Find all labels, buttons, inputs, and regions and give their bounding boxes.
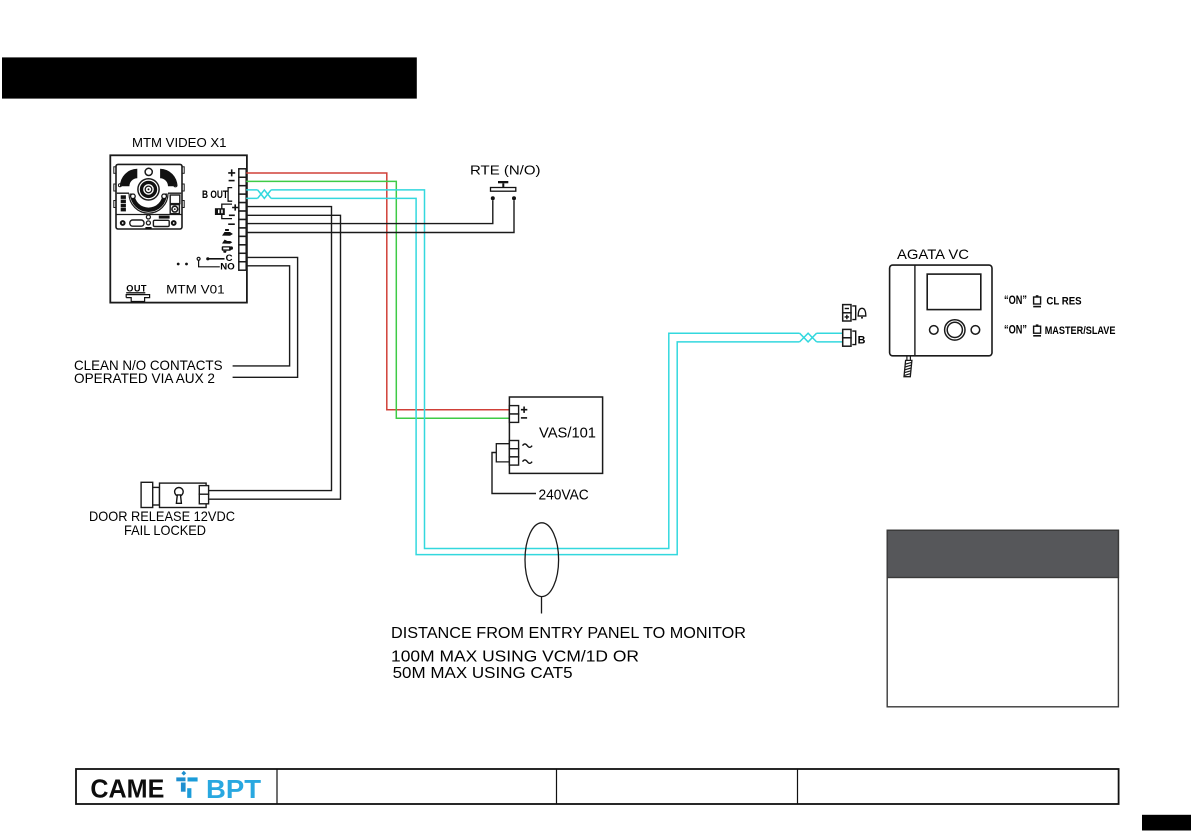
svg-text:B OUT: B OUT	[202, 189, 228, 201]
svg-text:240VAC: 240VAC	[539, 488, 589, 504]
svg-text:OPERATED VIA AUX 2: OPERATED VIA AUX 2	[74, 370, 215, 386]
svg-text:MTM VIDEO X1: MTM VIDEO X1	[132, 135, 227, 150]
bell icon	[858, 308, 867, 318]
callout stem	[541, 597, 543, 614]
distance callout ellipse	[525, 523, 559, 597]
handset divider	[914, 265, 916, 356]
B terminal block	[843, 329, 851, 346]
RTE push button	[491, 181, 517, 200]
OUT underline	[126, 292, 145, 294]
buttons	[930, 320, 980, 340]
svg-text:100M MAX USING VCM/1D OR: 100M MAX USING VCM/1D OR	[391, 649, 639, 666]
footer table	[76, 769, 1119, 804]
right small rect + screw	[170, 195, 180, 204]
wire cyan bus B (B OUT to monitor)	[246, 198, 843, 554]
240VAC feed wire	[492, 453, 536, 494]
side circles	[118, 184, 121, 187]
wire black C contact	[233, 257, 298, 377]
svg-text:VAS/101: VAS/101	[539, 426, 596, 442]
dip switch icon 2	[1033, 324, 1041, 335]
lens	[138, 179, 159, 200]
key icon T9	[222, 240, 232, 244]
minus T7	[228, 223, 235, 225]
top circle	[145, 168, 152, 175]
minus T6	[229, 214, 235, 216]
svg-text:CAME: CAME	[90, 775, 164, 803]
svg-text:BPT: BPT	[206, 776, 261, 804]
svg-text:DOOR RELEASE 12VDC: DOOR RELEASE 12VDC	[89, 509, 235, 524]
left crescent	[120, 169, 137, 187]
VAS AC terminals	[509, 441, 518, 466]
bell terminal plus	[845, 315, 850, 320]
terminal labels	[222, 169, 239, 224]
wire green - supply to VAS	[246, 181, 510, 418]
svg-text:“ON”: “ON”	[1004, 293, 1027, 307]
right crescent	[160, 169, 177, 187]
notes box with gray header	[887, 530, 1118, 707]
AC bracket	[496, 444, 509, 462]
door release lock symbol	[141, 482, 209, 507]
twisted pair mark near MTM	[258, 190, 272, 199]
CAME BPT icon	[176, 771, 197, 798]
svg-text:AGATA VC: AGATA VC	[897, 247, 969, 262]
svg-text:OUT: OUT	[126, 284, 147, 294]
AC tilde bottom	[523, 460, 533, 463]
mid line	[117, 192, 181, 194]
svg-text:FAIL LOCKED: FAIL LOCKED	[124, 523, 206, 538]
video camera icon at T5	[215, 208, 225, 215]
OUT connector shape	[126, 295, 149, 302]
screen	[927, 274, 981, 310]
plus T1	[228, 169, 235, 176]
VAS - label	[521, 417, 527, 419]
svg-text:MASTER/SLAVE: MASTER/SLAVE	[1045, 325, 1116, 337]
plus T5	[232, 204, 238, 210]
VAS + label	[521, 407, 527, 413]
handset cord	[904, 356, 912, 377]
camera module drawing	[114, 164, 184, 229]
svg-text:“ON”: “ON”	[1004, 323, 1027, 337]
svg-text:50M MAX USING CAT5: 50M MAX USING CAT5	[393, 665, 573, 682]
svg-text:NO: NO	[220, 262, 235, 273]
AC tilde top	[523, 444, 533, 447]
speaker arc	[130, 194, 167, 213]
bell bracket	[852, 306, 855, 320]
left connector stack	[121, 195, 126, 211]
monitor AGATA VC body	[890, 265, 992, 356]
bell terminal block	[843, 305, 851, 321]
wire black + 12V to door release	[209, 207, 332, 491]
svg-text:B: B	[858, 335, 866, 347]
key icon T8	[222, 229, 233, 236]
wire cyan bus A (B OUT to monitor)	[246, 190, 843, 549]
camera icon T10	[222, 246, 233, 253]
twisted pair mark near AGATA	[800, 333, 817, 342]
entry panel MTM VIDEO X1 box	[110, 155, 247, 302]
svg-text:CL RES: CL RES	[1046, 296, 1081, 308]
svg-text:DISTANCE FROM ENTRY PANEL TO M: DISTANCE FROM ENTRY PANEL TO MONITOR	[391, 625, 746, 642]
wire red + supply to VAS	[246, 173, 510, 410]
wire black to RTE right	[246, 200, 514, 232]
VAS DC terminals	[509, 406, 518, 423]
B bracket	[852, 331, 855, 345]
bell terminal minus	[845, 308, 849, 310]
title bar	[2, 57, 417, 98]
wire black NO contact	[233, 266, 290, 366]
svg-text:RTE (N/O): RTE (N/O)	[470, 163, 541, 178]
terminal strip 12 terminals	[239, 169, 246, 270]
power supply VAS/101 box	[509, 397, 602, 473]
wire black - 12V to door release	[209, 215, 341, 499]
wire black to RTE left	[246, 200, 493, 223]
B OUT bracket T3-T4	[228, 188, 232, 202]
video pair bracket T5-T6	[222, 204, 232, 219]
minus T2	[229, 180, 235, 182]
svg-text:MTM V01: MTM V01	[166, 283, 225, 296]
corner black mark	[1142, 815, 1191, 831]
keyhole	[175, 488, 184, 504]
dip switch icon 1	[1033, 295, 1041, 306]
bottom section	[116, 214, 181, 216]
aux switch symbol	[177, 257, 225, 267]
